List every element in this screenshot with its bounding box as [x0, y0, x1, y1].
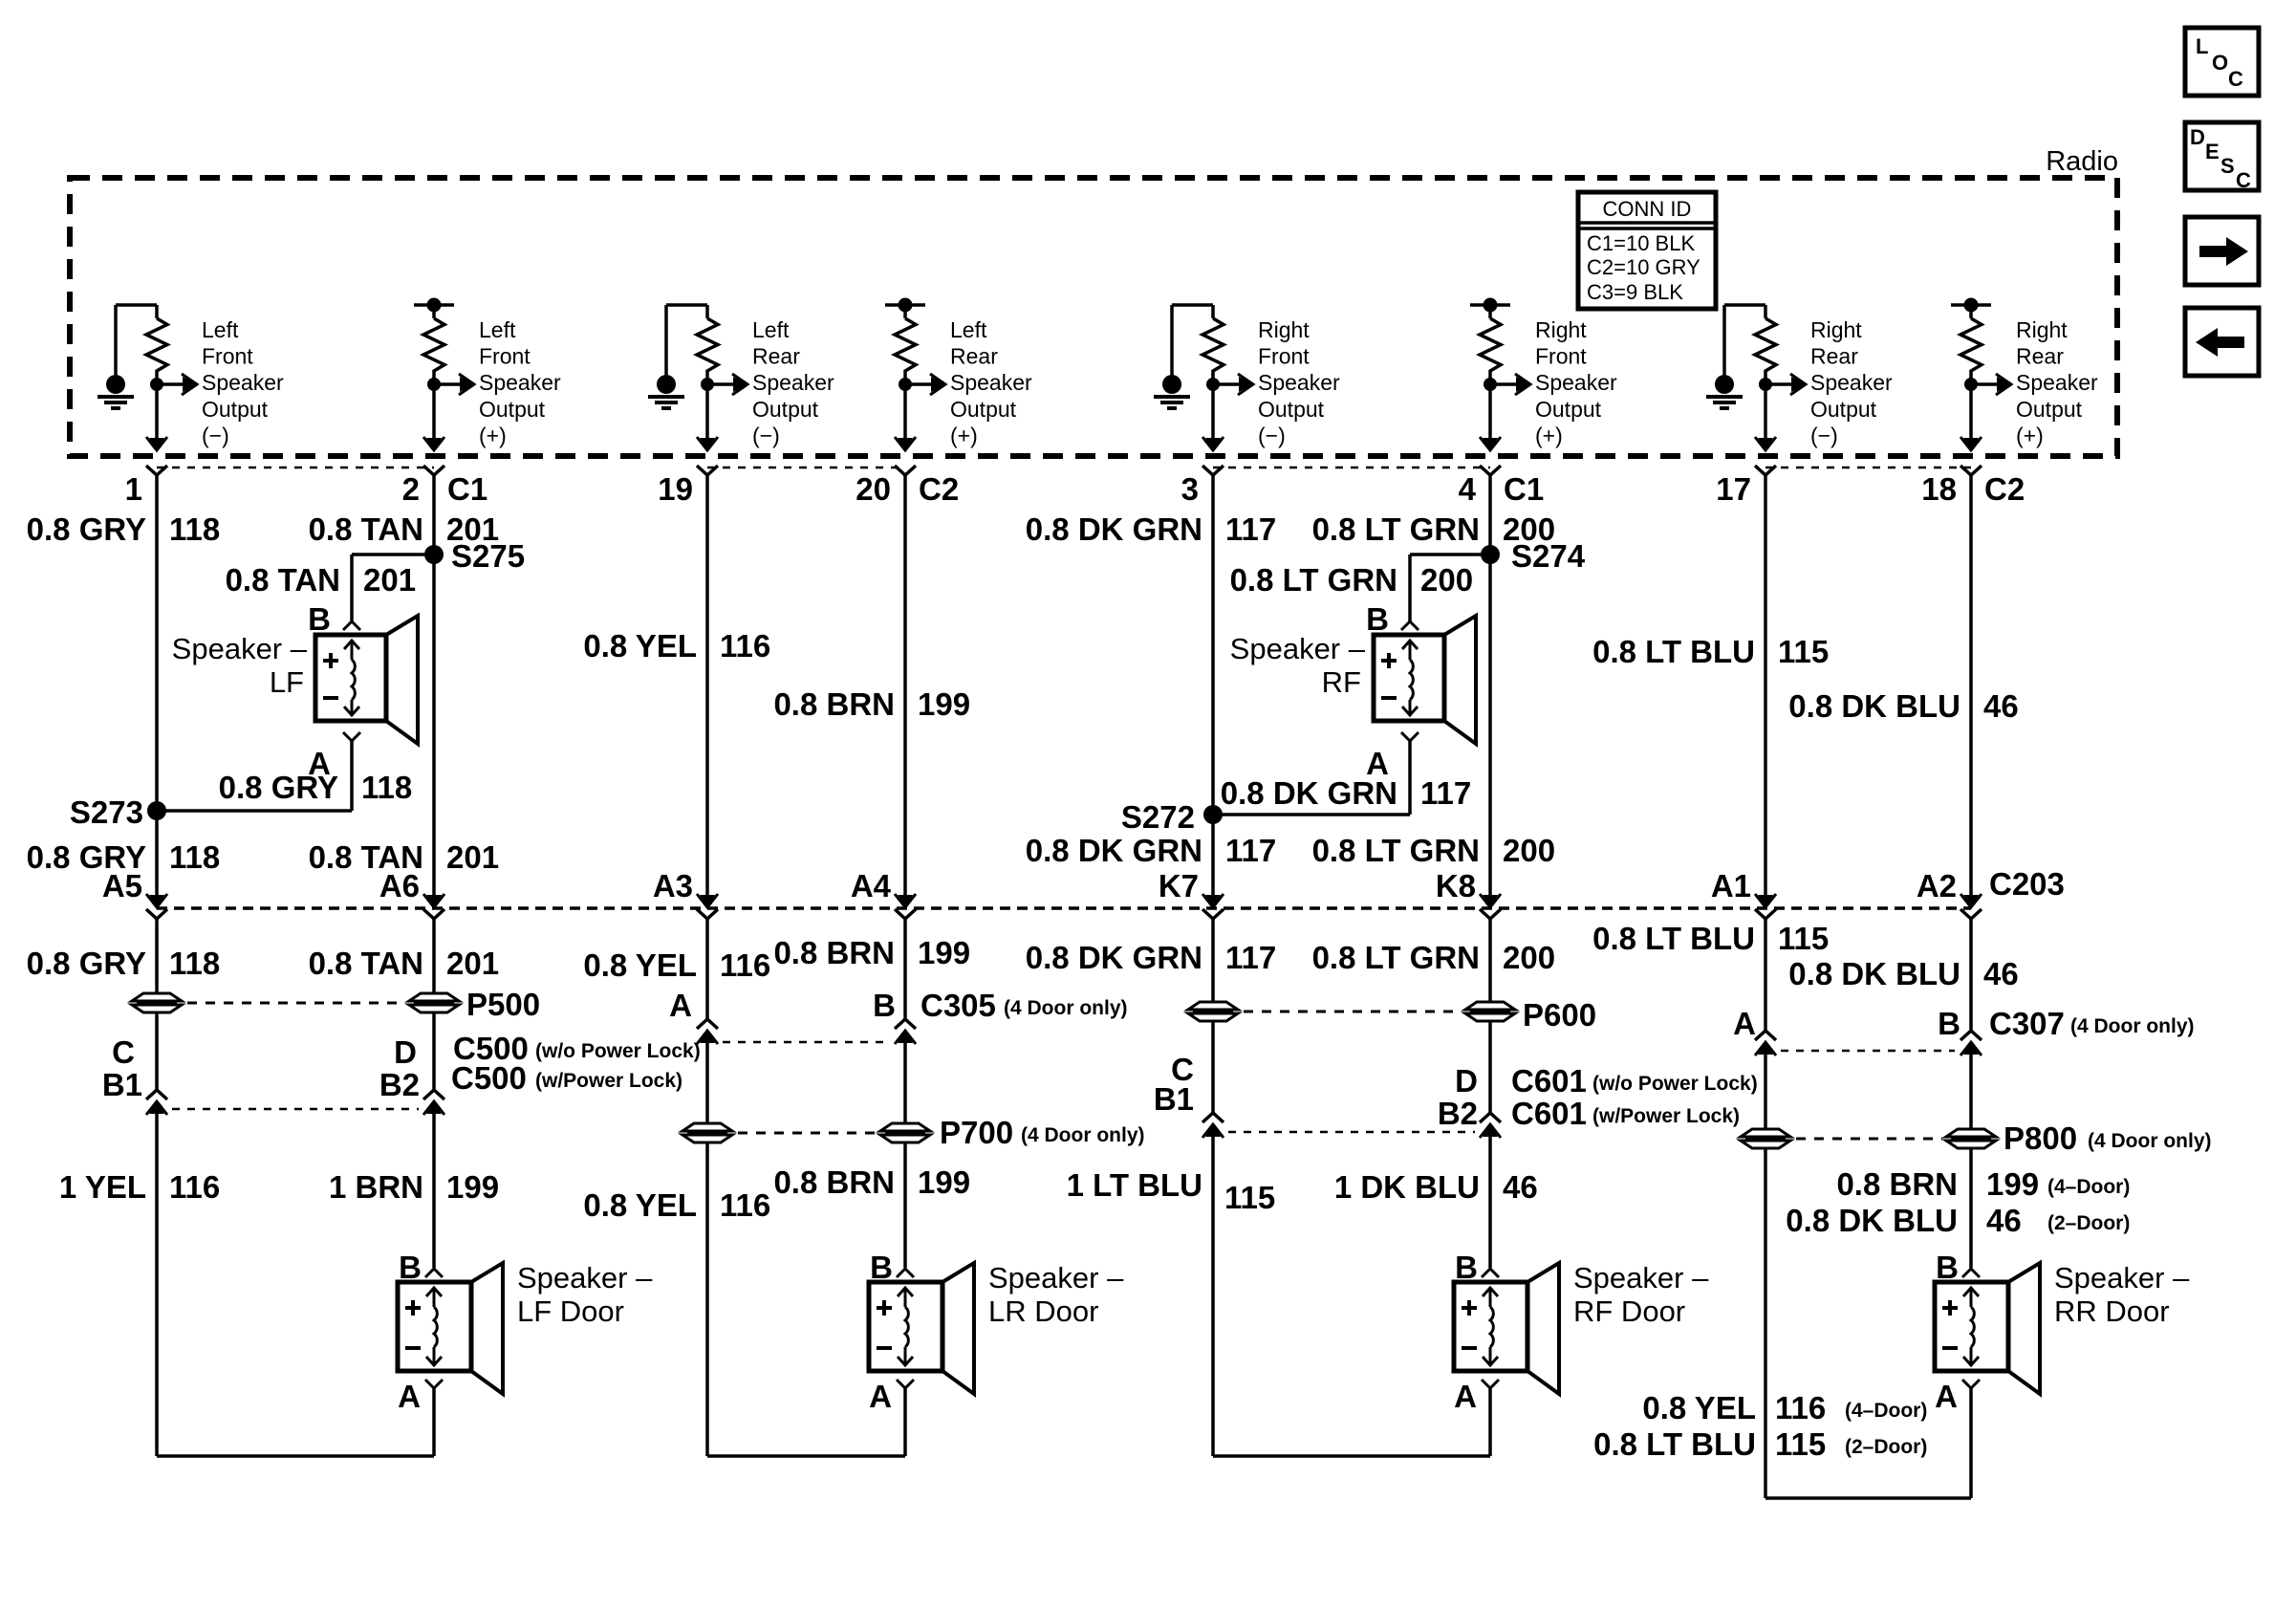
arrowhead into C203 (wire 19): [700, 895, 715, 907]
svg-text:B: B: [308, 601, 331, 637]
grommet P600 (right half): [1465, 1002, 1515, 1010]
ground (R1): [97, 305, 157, 408]
arrowhead into C203 (wire 3): [1205, 895, 1221, 907]
svg-text:0.8 BRN: 0.8 BRN: [773, 1164, 895, 1200]
svg-text:C2: C2: [919, 471, 959, 507]
svg-text:17: 17: [1716, 471, 1751, 507]
svg-text:Speaker: Speaker: [1258, 370, 1340, 395]
wire label 0.8 LT BLU 115 (2-Door): [1593, 1426, 1927, 1462]
terminal chevron A (Speaker LF Door): [425, 1380, 443, 1388]
output arrow (R1): [157, 374, 197, 395]
icon box left arrow: [2185, 308, 2259, 376]
connector P600 (dashed line): [1244, 1011, 1462, 1013]
svg-text:B: B: [1938, 1006, 1960, 1041]
svg-text:1 DK BLU: 1 DK BLU: [1334, 1169, 1480, 1205]
junction dot on wire 3: [701, 378, 714, 391]
connector C203 (dashed line): [157, 906, 1971, 910]
grommet P500 (left half): [132, 993, 182, 1001]
svg-text:Front: Front: [1535, 344, 1587, 369]
label C305 (4 Door only): [921, 988, 1128, 1023]
arrowhead into radio border (pin wire 8): [1963, 438, 1979, 450]
resistor R2 (Left Front Speaker Output (+)): [423, 305, 444, 377]
wire K8 from C203 to P600: [1488, 919, 1492, 1002]
svg-text:0.8 LT GRN: 0.8 LT GRN: [1312, 940, 1480, 975]
svg-text:0.8 DK GRN: 0.8 DK GRN: [1026, 511, 1202, 547]
svg-text:200: 200: [1503, 833, 1555, 868]
terminal chevron A (Speaker RR Door): [1962, 1380, 1980, 1388]
terminal chevron B (Speaker RF): [1401, 621, 1419, 630]
svg-text:B: B: [873, 988, 896, 1023]
svg-text:(+): (+): [479, 423, 507, 447]
svg-text:118: 118: [169, 839, 220, 875]
wire from R3 to radio pin: [705, 377, 709, 439]
svg-text:Speaker –: Speaker –: [517, 1261, 653, 1295]
svg-text:117: 117: [1225, 833, 1276, 868]
wire C/B1 from C500 down and across to Speaker LF Door terminal A: [157, 1113, 434, 1456]
arrowhead into C307 (wire A1): [1758, 1042, 1773, 1055]
svg-text:(4–Door): (4–Door): [2047, 1176, 2130, 1198]
wire D/B2 from C601 to Speaker RF Door terminal B: [1488, 1136, 1492, 1268]
svg-text:C601: C601: [1511, 1063, 1587, 1099]
svg-text:B2: B2: [1438, 1096, 1478, 1131]
wire from Speaker LF terminal A to splice S273: [157, 741, 352, 811]
connector C307 (dashed line): [1781, 1050, 1955, 1053]
svg-text:0.8 LT GRN: 0.8 LT GRN: [1312, 511, 1480, 547]
supply T-bar with junction dot (R6): [1470, 298, 1510, 313]
svg-text:116: 116: [720, 628, 770, 664]
svg-text:1 BRN: 1 BRN: [329, 1169, 423, 1205]
arrowhead into C203 (wire 2): [426, 895, 442, 907]
junction dot on wire 5: [1206, 378, 1220, 391]
label Left Front Speaker Output (−): [202, 317, 284, 447]
label Left Front Speaker Output (+): [479, 317, 561, 447]
svg-text:(w/Power Lock): (w/Power Lock): [1592, 1105, 1740, 1127]
connector chevron at C203 (wire 4): [1480, 909, 1501, 919]
svg-text:Speaker –: Speaker –: [2054, 1261, 2190, 1295]
svg-text:0.8 LT BLU: 0.8 LT BLU: [1593, 1426, 1756, 1462]
connector P800 (dashed line): [1796, 1138, 1942, 1141]
svg-text:RR Door: RR Door: [2054, 1295, 2170, 1328]
svg-text:200: 200: [1503, 940, 1555, 975]
arrowhead into C601 (wire C/B1): [1205, 1124, 1221, 1137]
speaker LR Door (symbol): [869, 1263, 974, 1394]
wire label 0.8 BRN 199: [773, 1164, 970, 1200]
grommet P800 (left half): [1741, 1129, 1790, 1137]
svg-text:Speaker –: Speaker –: [1573, 1261, 1709, 1295]
wire from P600 to C601 (left): [1211, 1021, 1215, 1113]
svg-text:P800: P800: [2004, 1120, 2077, 1156]
svg-text:S275: S275: [451, 538, 525, 574]
wire D/B2 from C500 to Speaker LF Door terminal B: [432, 1113, 436, 1268]
svg-text:0.8 LT BLU: 0.8 LT BLU: [1592, 634, 1755, 669]
svg-text:0.8 DK GRN: 0.8 DK GRN: [1026, 940, 1202, 975]
svg-text:Output: Output: [1258, 397, 1325, 422]
svg-text:C1: C1: [1504, 471, 1544, 507]
svg-text:Right: Right: [1258, 317, 1310, 342]
svg-text:Right: Right: [2016, 317, 2068, 342]
connector chevron at C305 (wire A4): [895, 1019, 916, 1029]
wire 2 from radio connector to C203: [432, 475, 436, 897]
svg-text:P600: P600: [1523, 997, 1596, 1033]
connector chevron at C601 (wire D/B2): [1480, 1113, 1501, 1122]
svg-text:S273: S273: [70, 794, 143, 830]
wire label 0.8 YEL 116 (below C203): [583, 947, 770, 983]
ground (R5): [1154, 305, 1213, 408]
label Right Rear Speaker Output (−): [1810, 317, 1893, 447]
speaker LF Door (symbol): [398, 1263, 503, 1394]
wire A3 from C203 to C305: [705, 919, 709, 1019]
svg-text:B1: B1: [1154, 1081, 1194, 1117]
grommet P700 (right half): [880, 1123, 930, 1131]
arrowhead into C500 (wire C/B1): [149, 1101, 164, 1114]
svg-text:LF Door: LF Door: [517, 1295, 624, 1328]
svg-text:(4–Door): (4–Door): [1845, 1400, 1927, 1422]
output arrow (R2): [434, 374, 474, 395]
wire A4 from C203 to C305: [903, 919, 907, 1019]
svg-text:P500: P500: [466, 987, 540, 1022]
arrowhead into C203 (wire 20): [898, 895, 913, 907]
label C601 (w/Power Lock): [1511, 1096, 1740, 1131]
CONN ID table: [1578, 192, 1716, 309]
svg-text:Radio: Radio: [2046, 146, 2118, 177]
junction dot on wire 2: [427, 378, 441, 391]
radio connector C1 (dashed line): [157, 467, 434, 469]
svg-text:(2–Door): (2–Door): [2047, 1212, 2130, 1234]
label Speaker - LF Door: [517, 1261, 653, 1328]
arrowhead into C307 (wire A2): [1963, 1042, 1979, 1055]
wire 20 from radio connector to C203: [903, 475, 907, 897]
svg-text:199: 199: [918, 686, 970, 722]
svg-text:0.8 GRY: 0.8 GRY: [219, 770, 338, 805]
svg-text:46: 46: [1983, 956, 2019, 991]
supply T-bar with junction dot (R4): [885, 298, 925, 313]
wire label 1 BRN 199: [329, 1169, 499, 1205]
svg-text:20: 20: [856, 471, 891, 507]
arrowhead into radio border (pin wire 5): [1205, 438, 1221, 450]
wire from C305 to P700 (left): [705, 1042, 709, 1123]
svg-text:1 LT BLU: 1 LT BLU: [1067, 1167, 1202, 1203]
label C601 (w/o Power Lock): [1511, 1063, 1758, 1099]
wire 17 from radio connector to C203: [1764, 475, 1767, 897]
svg-text:K8: K8: [1436, 868, 1476, 903]
output arrow (R5): [1213, 374, 1253, 395]
ground (R7): [1706, 305, 1765, 408]
wire label 0.8 BRN 199 (pin 20): [773, 686, 970, 722]
arrowhead into C305 (wire A4): [898, 1031, 913, 1043]
svg-text:1: 1: [125, 471, 142, 507]
svg-text:201: 201: [446, 839, 499, 875]
wire from P500 to C500 (right): [432, 1013, 436, 1090]
wire from R8 to radio pin: [1969, 377, 1973, 439]
svg-text:Speaker –: Speaker –: [988, 1261, 1124, 1295]
svg-text:Speaker –: Speaker –: [1230, 632, 1366, 665]
svg-text:B2: B2: [379, 1067, 420, 1102]
connector chevron at C305 (wire A3): [697, 1019, 718, 1029]
wire label 0.8 YEL 116 (4-Door): [1642, 1390, 1927, 1425]
svg-text:201: 201: [363, 562, 416, 598]
svg-text:Right: Right: [1810, 317, 1862, 342]
wire from Speaker RF Door terminal A: [1488, 1388, 1492, 1456]
svg-text:D: D: [2190, 125, 2205, 149]
wire label 1 LT BLU 115: [1067, 1167, 1276, 1215]
svg-text:Rear: Rear: [1810, 344, 1858, 369]
wire label 0.8 GRY 118 (pin 1): [27, 511, 221, 547]
arrowhead into radio border (pin wire 6): [1483, 438, 1498, 450]
svg-text:199: 199: [446, 1169, 499, 1205]
wire label 0.8 LT GRN 200 (below C203): [1312, 940, 1555, 975]
svg-text:Rear: Rear: [752, 344, 800, 369]
svg-text:Speaker –: Speaker –: [172, 632, 308, 665]
svg-text:Speaker: Speaker: [1535, 370, 1617, 395]
svg-text:Left: Left: [752, 317, 790, 342]
wire from P500 to C500 (left): [155, 1013, 159, 1090]
svg-text:(−): (−): [752, 423, 780, 447]
svg-text:C305: C305: [921, 988, 996, 1023]
arrowhead into C203 (wire 4): [1483, 895, 1498, 907]
junction dot on wire 6: [1484, 378, 1497, 391]
svg-text:B1: B1: [102, 1067, 142, 1102]
wire from P700 to Speaker LR Door terminal B: [903, 1142, 907, 1268]
output arrow (R4): [905, 374, 945, 395]
label C500 (w/o Power Lock): [453, 1031, 701, 1066]
svg-text:0.8 TAN: 0.8 TAN: [309, 511, 423, 547]
svg-text:Output: Output: [2016, 397, 2083, 422]
label C500 (w/Power Lock): [451, 1060, 682, 1096]
resistor R7 (Right Rear Speaker Output (−)): [1755, 305, 1776, 377]
wire from R2 to radio pin: [432, 377, 436, 439]
svg-text:0.8 GRY: 0.8 GRY: [27, 511, 146, 547]
svg-text:199: 199: [918, 935, 970, 970]
junction dot on wire 1: [150, 378, 163, 391]
svg-text:C1=10 BLK: C1=10 BLK: [1587, 231, 1695, 255]
speaker RF Door (symbol): [1454, 1263, 1559, 1394]
splice S274: [1481, 545, 1500, 564]
svg-text:S: S: [2220, 154, 2235, 178]
junction dot on wire 7: [1759, 378, 1772, 391]
arrowhead into radio border (pin wire 7): [1758, 438, 1773, 450]
label Left Rear Speaker Output (+): [950, 317, 1032, 447]
radio box (dashed outline): [70, 178, 2117, 456]
junction dot on wire 8: [1964, 378, 1978, 391]
svg-text:Right: Right: [1535, 317, 1587, 342]
splice S273: [147, 801, 166, 820]
label Left Rear Speaker Output (−): [752, 317, 834, 447]
svg-text:P700: P700: [940, 1115, 1013, 1150]
grommet P600 (left half): [1188, 1002, 1238, 1010]
branch wire label 0.8 DK GRN 117: [1221, 775, 1471, 811]
resistor R4 (Left Rear Speaker Output (+)): [895, 305, 916, 377]
svg-text:0.8 YEL: 0.8 YEL: [1642, 1390, 1756, 1425]
wire C/B1 from C601 down and across to Speaker RF Door terminal A: [1213, 1136, 1490, 1456]
wire from C307 to P800 (left): [1764, 1054, 1767, 1129]
svg-text:B: B: [399, 1250, 422, 1285]
svg-text:B: B: [1366, 601, 1389, 637]
svg-text:1 YEL: 1 YEL: [59, 1169, 146, 1205]
wire 3 from radio connector to C203: [1211, 475, 1215, 897]
svg-text:0.8 LT BLU: 0.8 LT BLU: [1592, 921, 1755, 956]
svg-text:0.8 BRN: 0.8 BRN: [773, 935, 895, 970]
svg-text:S272: S272: [1121, 799, 1195, 835]
wire from R1 to radio pin: [155, 377, 159, 439]
grommet P700 (left half): [682, 1123, 732, 1131]
wire label 0.8 DK GRN 117 (below C203): [1026, 940, 1276, 975]
svg-text:Left: Left: [479, 317, 516, 342]
svg-text:S274: S274: [1511, 538, 1586, 574]
svg-text:C2=10 GRY: C2=10 GRY: [1587, 255, 1700, 279]
svg-text:0.8 DK GRN: 0.8 DK GRN: [1221, 775, 1397, 811]
svg-text:0.8 LT GRN: 0.8 LT GRN: [1230, 562, 1397, 598]
svg-text:(4 Door only): (4 Door only): [1021, 1124, 1145, 1146]
arrowhead into C203 (wire 1): [149, 895, 164, 907]
terminal chevron B (Speaker RR Door): [1962, 1269, 1980, 1277]
connector chevron at C203 (wire 17): [1755, 909, 1776, 919]
wire from R5 to radio pin: [1211, 377, 1215, 439]
svg-text:RF Door: RF Door: [1573, 1295, 1685, 1328]
wire from Speaker LF Door terminal A: [432, 1388, 436, 1456]
connector chevron at C601 (wire C/B1): [1202, 1113, 1224, 1122]
svg-text:(−): (−): [202, 423, 229, 447]
svg-text:Output: Output: [1810, 397, 1877, 422]
svg-text:Speaker: Speaker: [2016, 370, 2098, 395]
svg-text:A5: A5: [102, 868, 142, 903]
connector chevron at C203 (wire 18): [1960, 909, 1982, 919]
svg-text:C2: C2: [1984, 471, 2025, 507]
svg-text:0.8 LT GRN: 0.8 LT GRN: [1312, 833, 1480, 868]
svg-text:0.8 BRN: 0.8 BRN: [773, 686, 895, 722]
svg-text:115: 115: [1778, 634, 1829, 669]
wire from P600 to C601 (right): [1488, 1021, 1492, 1113]
junction dot on wire 4: [899, 378, 912, 391]
svg-text:Output: Output: [950, 397, 1017, 422]
terminal chevron B (Speaker LF): [343, 621, 360, 630]
svg-text:0.8 DK BLU: 0.8 DK BLU: [1786, 1203, 1958, 1238]
svg-text:200: 200: [1420, 562, 1473, 598]
svg-text:115: 115: [1224, 1180, 1275, 1215]
svg-text:116: 116: [169, 1169, 220, 1205]
wire from R7 to radio pin: [1764, 377, 1767, 439]
svg-text:O: O: [2212, 51, 2228, 75]
wire branch from S275 to Speaker LF terminal B: [352, 555, 434, 621]
icon box DESC: [2185, 122, 2259, 192]
terminal chevron A (Speaker RF): [1401, 732, 1419, 741]
wire from Speaker RF terminal A to splice S272: [1213, 741, 1410, 815]
pin 4 connector chevron: [1480, 466, 1501, 475]
wire label 0.8 DK GRN 117 (pin 3): [1026, 511, 1276, 547]
label Speaker - RR Door: [2054, 1261, 2190, 1328]
svg-text:C: C: [2236, 168, 2251, 192]
wire 4 from radio connector to C203: [1488, 475, 1492, 897]
svg-text:0.8 DK BLU: 0.8 DK BLU: [1788, 688, 1960, 724]
wire from Speaker RR Door terminal A: [1969, 1388, 1973, 1498]
svg-text:LF: LF: [270, 665, 304, 699]
wire label 1 YEL 116: [59, 1169, 220, 1205]
label C307 (4 Door only): [1989, 1006, 2195, 1041]
svg-text:Output: Output: [202, 397, 269, 422]
connector C500 (dashed line): [172, 1108, 419, 1111]
supply T-bar with junction dot (R2): [414, 298, 454, 313]
wire from R6 to radio pin: [1488, 377, 1492, 439]
connector C305 (dashed line): [723, 1041, 889, 1044]
terminal chevron A (Speaker RF Door): [1482, 1380, 1499, 1388]
label P700 (4 Door only): [940, 1115, 1145, 1150]
svg-text:C3=9 BLK: C3=9 BLK: [1587, 280, 1683, 304]
svg-text:(+): (+): [2016, 423, 2044, 447]
svg-text:E: E: [2205, 140, 2220, 163]
svg-text:Front: Front: [202, 344, 253, 369]
svg-text:Speaker: Speaker: [202, 370, 284, 395]
svg-text:Output: Output: [752, 397, 819, 422]
svg-text:(−): (−): [1258, 423, 1286, 447]
wire label 0.8 LT GRN 200 (pin 4): [1312, 511, 1555, 547]
pin 19 connector chevron: [697, 466, 718, 475]
svg-text:(4 Door only): (4 Door only): [2088, 1130, 2212, 1152]
icon box right arrow: [2185, 217, 2259, 285]
svg-text:Front: Front: [1258, 344, 1310, 369]
svg-text:0.8 DK GRN: 0.8 DK GRN: [1026, 833, 1202, 868]
connector C601 (dashed line): [1228, 1131, 1475, 1134]
svg-text:Output: Output: [1535, 397, 1602, 422]
label P800 (4 Door only): [2004, 1120, 2212, 1156]
output arrow (R8): [1971, 374, 2011, 395]
svg-text:C500: C500: [451, 1060, 527, 1096]
svg-text:C: C: [112, 1034, 135, 1070]
branch wire label 0.8 TAN 201: [226, 562, 416, 598]
wire label 0.8 TAN 201 (below C203): [309, 946, 499, 981]
supply T-bar with junction dot (R8): [1951, 298, 1991, 313]
svg-text:19: 19: [658, 471, 693, 507]
svg-text:0.8 BRN: 0.8 BRN: [1836, 1166, 1958, 1202]
terminal chevron B (Speaker RF Door): [1482, 1269, 1499, 1277]
wire label 0.8 YEL 116 (pin 19): [583, 628, 770, 664]
wire label 0.8 GRY 118 (below S273): [27, 839, 221, 875]
arrowhead into C500 (wire D/B2): [426, 1101, 442, 1114]
radio connector C2 (dashed line): [707, 467, 905, 469]
speaker LF (symbol): [315, 616, 418, 744]
svg-text:116: 116: [720, 1187, 770, 1223]
svg-text:115: 115: [1778, 921, 1829, 956]
terminal chevron A (Speaker LF): [343, 732, 360, 741]
svg-text:K7: K7: [1159, 868, 1199, 903]
wire 18 from radio connector to C203: [1969, 475, 1973, 897]
svg-text:115: 115: [1775, 1426, 1826, 1462]
svg-text:B: B: [1936, 1250, 1959, 1285]
connector chevron at C307 (wire A2): [1960, 1031, 1982, 1040]
wire from R4 to radio pin: [903, 377, 907, 439]
wire from C305 to P700 (right): [903, 1042, 907, 1123]
svg-text:D: D: [1455, 1063, 1478, 1099]
svg-text:18: 18: [1921, 471, 1957, 507]
arrowhead into radio border (pin wire 3): [700, 438, 715, 450]
svg-text:C601: C601: [1511, 1096, 1587, 1131]
svg-text:4: 4: [1459, 471, 1477, 507]
output arrow (R6): [1490, 374, 1530, 395]
arrowhead into C203 (wire 18): [1963, 895, 1979, 907]
svg-text:201: 201: [446, 946, 499, 981]
connector chevron at C203 (wire 19): [697, 909, 718, 919]
wire label 0.8 DK BLU 46 (pin 18): [1788, 688, 2018, 724]
wire label 0.8 YEL 116: [583, 1187, 770, 1223]
wire from P700 down and across to Speaker LR Door terminal A: [707, 1142, 905, 1456]
wire label 0.8 DK BLU 46 (2-Door): [1786, 1203, 2130, 1238]
wire from P800 down and across to Speaker RR Door terminal A: [1765, 1148, 1971, 1498]
wire 19 from radio connector to C203: [705, 475, 709, 897]
svg-text:Front: Front: [479, 344, 531, 369]
wire K7 from C203 to P600: [1211, 919, 1215, 1002]
svg-text:A2: A2: [1917, 868, 1957, 903]
svg-text:116: 116: [1775, 1390, 1826, 1425]
svg-text:0.8 GRY: 0.8 GRY: [27, 946, 146, 981]
resistor R6 (Right Front Speaker Output (+)): [1480, 305, 1501, 377]
